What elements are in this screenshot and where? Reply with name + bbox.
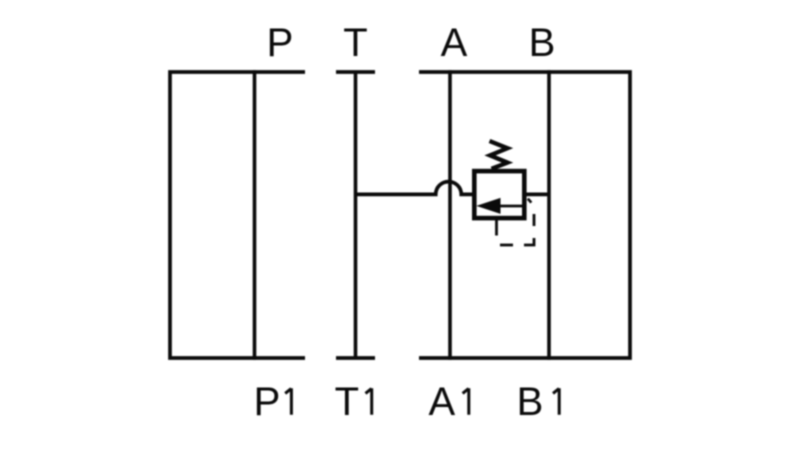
svg-text:A: A [441, 21, 468, 65]
right plate outline (A B section) [419, 72, 630, 358]
arrow line to outlet [501, 205, 524, 208]
valve V1 body [474, 171, 524, 218]
svg-text:P: P [267, 21, 294, 65]
drain stub [495, 220, 498, 236]
pilot line dash 1 (diagonal tick) [528, 199, 532, 203]
wire valve to B [526, 193, 550, 197]
left plate outline (P section) [170, 72, 305, 358]
svg-text:A: A [429, 380, 456, 424]
top cap T [336, 70, 375, 74]
check arrow [476, 198, 500, 214]
bottom cap T1 [336, 356, 375, 360]
pilot line dash 2 [533, 214, 536, 226]
line P [253, 70, 257, 360]
svg-text:P: P [254, 380, 281, 424]
line T [354, 72, 358, 358]
svg-text:B: B [529, 21, 556, 65]
pilot line dash 3 (corner) [524, 238, 534, 245]
line B [547, 70, 551, 360]
wire T to valve with hop over A [356, 182, 473, 195]
line A [448, 70, 452, 360]
pilot line dash 4 [500, 244, 513, 247]
spring [490, 141, 508, 169]
svg-text:T: T [343, 21, 367, 65]
svg-text:T: T [335, 380, 359, 424]
svg-text:B: B [517, 380, 544, 424]
